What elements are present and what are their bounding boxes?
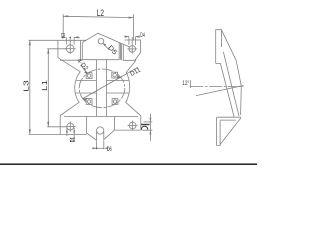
svg-text:D6: D6: [107, 146, 112, 153]
dimension D4: [124, 36, 139, 45]
thickness dimension right: [142, 114, 153, 141]
bottom V chamfers with slot D6: [87, 130, 115, 140]
svg-text:L3: L3: [24, 80, 31, 92]
pitch circle D11 (dashed): [79, 69, 125, 108]
svg-text:D11: D11: [129, 66, 142, 77]
bottom-right ear bottom edge: [115, 129, 141, 131]
angle leg line: [196, 86, 244, 96]
side view bottom flange: [217, 117, 221, 145]
side view top flange: [216, 30, 222, 64]
side view gusset triangle: [220, 118, 241, 145]
dimension D1 (bottom-left hole): [66, 128, 75, 143]
side view top gusset: [221, 30, 236, 61]
label B right (bar and arch glyph): [141, 125, 150, 130]
hole D4: [127, 37, 137, 54]
right waist outline with rib bump: [126, 60, 141, 130]
hole D5: [98, 38, 104, 44]
dimension L2: [63, 14, 133, 40]
svg-text:D1: D1: [70, 137, 76, 142]
svg-text:12°: 12°: [182, 79, 189, 87]
side view bottom connection: [217, 117, 241, 120]
pad square hole bottom-right: [112, 99, 118, 105]
dimension D6: [92, 141, 108, 150]
svg-text:D3: D3: [61, 34, 65, 40]
top-right ear outline: [122, 40, 141, 60]
left waist outline with rib bump: [58, 58, 80, 135]
side view middle plate right edge: [223, 52, 239, 116]
bottom border line: [0, 164, 257, 165]
svg-text:L2: L2: [97, 8, 104, 18]
dimension L1: [47, 49, 67, 127]
leader 4-D2: [81, 65, 88, 74]
bottom-left ear bottom edge: [60, 133, 86, 135]
top-left ear outline: [58, 40, 86, 60]
hole bottom-right: [128, 121, 138, 131]
side view outer edge: [236, 60, 241, 115]
bottom center block: [87, 116, 115, 133]
bottom band top edge: [64, 115, 138, 117]
side view step: [216, 62, 221, 64]
svg-text:D5: D5: [106, 44, 118, 56]
pad square hole top-left: [86, 73, 92, 79]
horizontal rib: [76, 80, 129, 93]
svg-text:D4: D4: [140, 33, 145, 39]
central column: [96, 60, 106, 117]
hole D1 bottom-left: [65, 122, 75, 132]
pad square hole top-right: [112, 72, 118, 78]
side view middle plate left edge: [220, 63, 234, 116]
dimension L3: [29, 40, 61, 134]
diameter line D11: [83, 67, 138, 101]
slot end circle: [97, 127, 104, 134]
leader for D5: [103, 43, 110, 50]
centerline (dash-dot): [190, 86, 243, 88]
hole D3: [65, 43, 76, 54]
svg-text:L1: L1: [42, 80, 49, 91]
angle leader tick: [189, 80, 191, 88]
top plate (peak) outline: [82, 33, 129, 60]
dimension D3: [62, 36, 80, 44]
pad square hole bottom-left: [86, 99, 92, 105]
